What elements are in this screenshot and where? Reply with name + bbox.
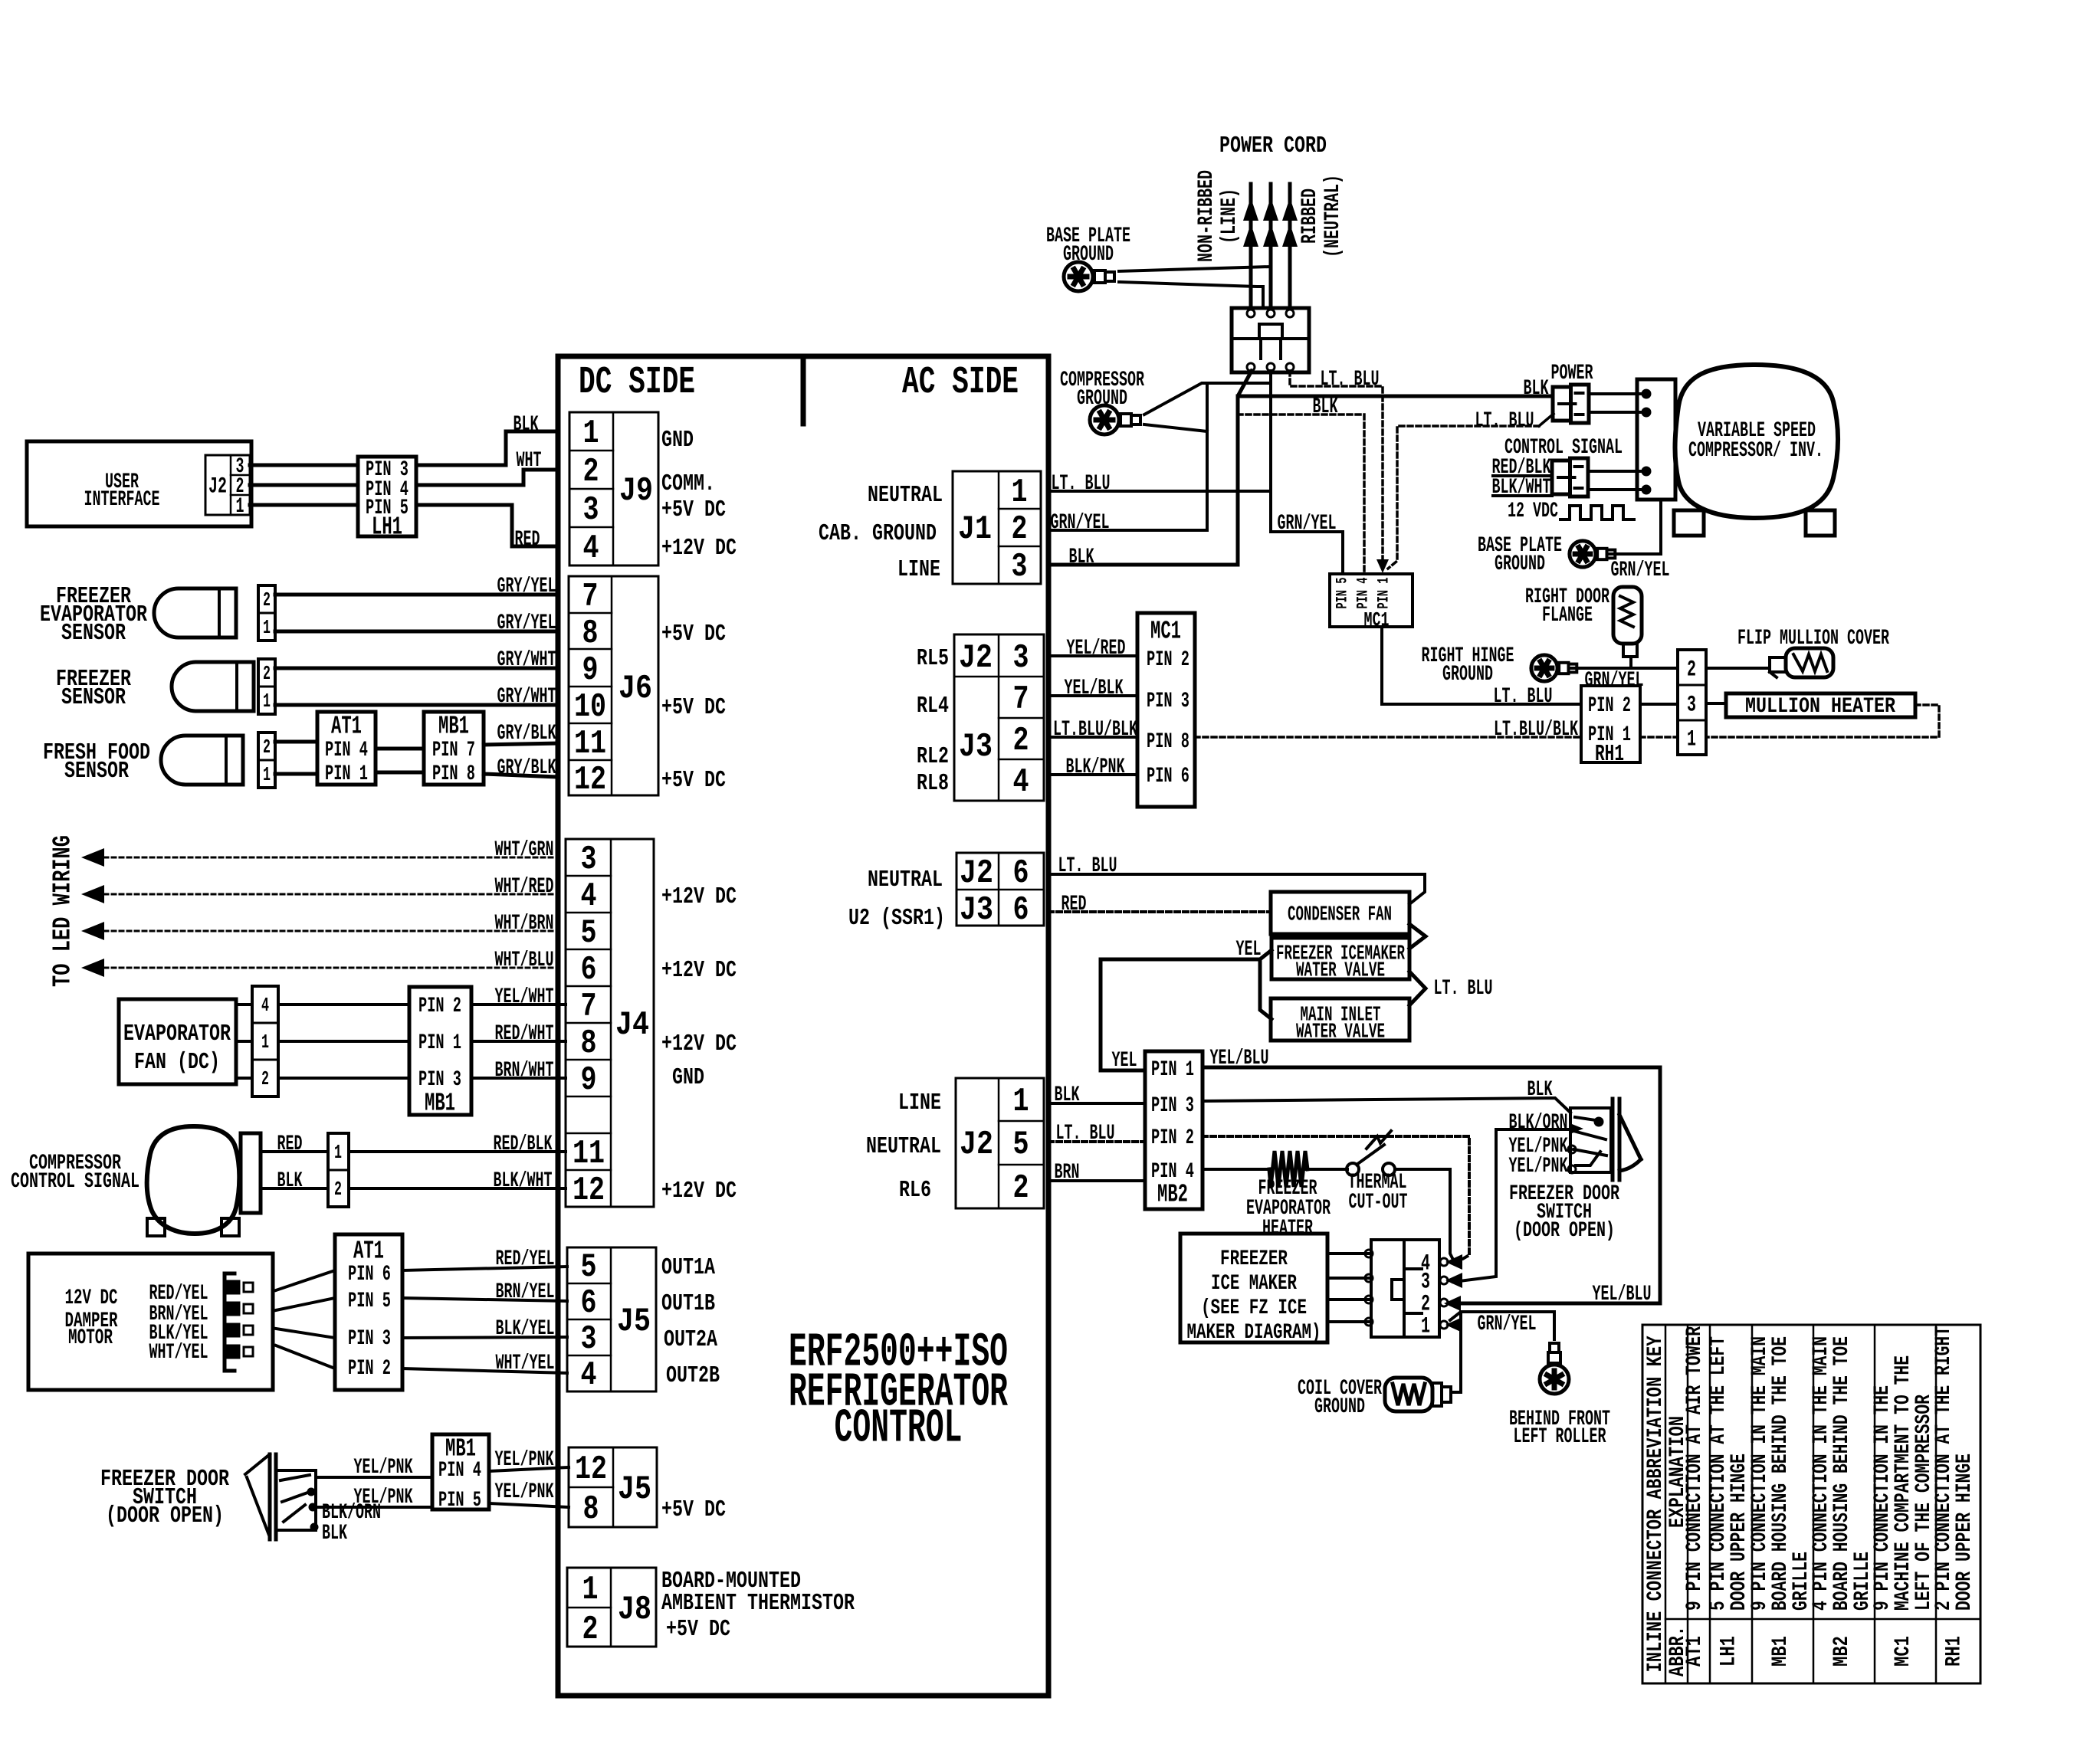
wire plug to MB1 PIN2 xyxy=(278,1003,409,1006)
right door flange icon xyxy=(1613,587,1642,644)
svg-text:+12V DC: +12V DC xyxy=(661,883,737,910)
wire WHT/BLU to LED (arrow) xyxy=(81,959,104,977)
svg-text:OUT2A: OUT2A xyxy=(664,1326,717,1353)
svg-text:3: 3 xyxy=(1687,693,1696,719)
control signal plug pair xyxy=(1552,461,1570,494)
wire BRN/WHT MB1 to J4-9 xyxy=(471,1077,566,1080)
compressor feet (right) xyxy=(1674,510,1704,536)
wires base plate ground to power cord xyxy=(1119,267,1271,271)
wire GRN/YEL plug 1 to roller ground xyxy=(1450,1312,1554,1339)
svg-text:DOOR UPPER HINGE: DOOR UPPER HINGE xyxy=(1953,1454,1977,1611)
wire cut-out to ice maker plug 4 xyxy=(1395,1169,1453,1260)
svg-text:PIN 4: PIN 4 xyxy=(325,739,368,762)
svg-text:GROUND: GROUND xyxy=(1442,663,1493,687)
wire RH1 PIN2 to strip 3 xyxy=(1640,703,1678,706)
power cord conductors with arrows xyxy=(1249,184,1253,308)
connector J6 xyxy=(569,576,658,795)
svg-text:2: 2 xyxy=(1013,1169,1029,1208)
svg-text:GRY/WHT: GRY/WHT xyxy=(497,685,556,709)
svg-text:YEL/PNK: YEL/PNK xyxy=(495,1448,554,1472)
svg-text:PIN 7: PIN 7 xyxy=(432,739,475,762)
svg-text:1: 1 xyxy=(1421,1314,1430,1340)
wires control plug to inverter xyxy=(1588,470,1646,473)
svg-text:MB2: MB2 xyxy=(1157,1180,1188,1208)
svg-text:5: 5 xyxy=(581,1248,597,1286)
svg-text:12 VDC: 12 VDC xyxy=(1508,500,1558,523)
svg-text:BRN/WHT: BRN/WHT xyxy=(495,1059,554,1083)
svg-text:WHT/BRN: WHT/BRN xyxy=(495,912,554,936)
svg-text:9 PIN CONNECTION AT AIR TOWER: 9 PIN CONNECTION AT AIR TOWER xyxy=(1683,1326,1707,1611)
svg-text:LT. BLU: LT. BLU xyxy=(1494,685,1553,709)
power plug pair xyxy=(1553,387,1571,421)
svg-text:(DOOR OPEN): (DOOR OPEN) xyxy=(1514,1219,1615,1243)
connector J2/J3 (RL5/RL4/RL2/RL8) xyxy=(954,634,1044,801)
wire neutral terminal to MC1 PIN1 xyxy=(1290,371,1383,565)
svg-text:SENSOR: SENSOR xyxy=(64,758,129,785)
svg-text:+12V DC: +12V DC xyxy=(661,1178,737,1205)
damper motor header connector xyxy=(223,1273,227,1371)
svg-text:MB1: MB1 xyxy=(438,712,469,740)
svg-text:6: 6 xyxy=(581,1284,597,1323)
svg-text:WHT/RED: WHT/RED xyxy=(495,875,554,899)
svg-text:OUT1A: OUT1A xyxy=(661,1254,715,1281)
svg-text:9: 9 xyxy=(581,1061,597,1100)
svg-text:5: 5 xyxy=(581,914,597,952)
wire J2-2 to LH1 PIN4 xyxy=(250,483,358,487)
condenser fan box xyxy=(1271,892,1409,934)
freezer sensor plug 2/1 xyxy=(258,659,275,714)
svg-text:NEUTRAL: NEUTRAL xyxy=(868,867,943,893)
svg-text:1: 1 xyxy=(263,763,271,786)
svg-text:2: 2 xyxy=(261,1067,269,1090)
svg-text:RH1: RH1 xyxy=(1942,1636,1966,1667)
svg-text:12: 12 xyxy=(575,1450,607,1489)
wire BRN J2-2 to MB2 PIN4 xyxy=(1048,1179,1145,1182)
svg-text:RED: RED xyxy=(277,1132,303,1156)
base plate ground lug (right) xyxy=(1570,541,1615,567)
wire WHT/BRN to LED (arrow) xyxy=(81,922,104,940)
wire GRY/BLK to J6-11 xyxy=(484,743,558,745)
svg-text:AT1: AT1 xyxy=(353,1237,384,1265)
wire LT. BLU J2-6 to condenser fan loop xyxy=(1048,874,1425,904)
svg-text:+5V DC: +5V DC xyxy=(661,497,726,523)
flip mullion cover icon xyxy=(1786,648,1833,677)
svg-text:2: 2 xyxy=(1012,510,1028,549)
svg-text:MB2: MB2 xyxy=(1830,1636,1854,1667)
svg-text:WHT/GRN: WHT/GRN xyxy=(495,838,554,862)
svg-text:PIN 8: PIN 8 xyxy=(1147,730,1189,754)
svg-text:(SEE FZ ICE: (SEE FZ ICE xyxy=(1201,1296,1307,1320)
svg-text:GRN/YEL: GRN/YEL xyxy=(1051,511,1110,535)
svg-text:+5V DC: +5V DC xyxy=(661,1496,726,1523)
svg-text:BLK/YEL: BLK/YEL xyxy=(496,1317,555,1341)
svg-text:BLK: BLK xyxy=(514,413,539,437)
svg-text:PIN 3: PIN 3 xyxy=(1147,690,1189,713)
wire YEL/RED J2-3 to MC1 PIN2 xyxy=(1048,654,1137,657)
svg-text:WATER VALVE: WATER VALVE xyxy=(1296,1021,1385,1044)
wire YEL/PNK switch to MB1 PIN5 xyxy=(316,1506,432,1509)
connector J9 xyxy=(569,412,658,565)
connector MC1 (pins 5/4/1) xyxy=(1330,574,1413,627)
compressor feet xyxy=(147,1218,165,1236)
svg-text:YEL/PNK: YEL/PNK xyxy=(354,1456,413,1480)
svg-text:GRN/YEL: GRN/YEL xyxy=(1611,559,1670,582)
wire BLK/WHT to J4-12 xyxy=(349,1187,566,1190)
svg-text:RED/YEL: RED/YEL xyxy=(496,1247,555,1271)
wire YEL/PNK MB1 to J5-12 xyxy=(489,1467,569,1471)
svg-text:3: 3 xyxy=(583,491,599,529)
svg-text:+5V DC: +5V DC xyxy=(661,694,726,721)
svg-text:J2: J2 xyxy=(208,474,227,500)
right hinge ground lug xyxy=(1531,655,1577,681)
svg-text:BLK: BLK xyxy=(1527,1078,1553,1102)
wire YEL/PNK switch to MB1 PIN4 xyxy=(316,1476,432,1479)
svg-text:GROUND: GROUND xyxy=(1314,1395,1365,1419)
svg-text:GRY/BLK: GRY/BLK xyxy=(497,722,556,746)
wire BLK line terminal to J1-3 and power switch xyxy=(1048,371,1252,565)
wire heater to thermal cut-out xyxy=(1306,1168,1347,1171)
svg-text:AMBIENT THERMISTOR: AMBIENT THERMISTOR xyxy=(661,1590,855,1617)
compressor signal plug 1/2 xyxy=(328,1133,349,1207)
svg-text:PIN 5: PIN 5 xyxy=(438,1489,481,1513)
svg-text:J5: J5 xyxy=(618,1470,651,1509)
svg-text:MC1: MC1 xyxy=(1892,1636,1915,1667)
svg-text:FLANGE: FLANGE xyxy=(1542,604,1593,628)
svg-text:J2: J2 xyxy=(959,639,993,677)
freezer evaporator sensor plug 2/1 xyxy=(258,585,275,641)
svg-text:+12V DC: +12V DC xyxy=(661,957,737,984)
wire WHT/GRN to LED (arrow) xyxy=(81,848,104,867)
svg-text:YEL/RED: YEL/RED xyxy=(1067,637,1126,660)
svg-text:GND: GND xyxy=(661,427,694,454)
wire LT. BLU J2-5 to MB2 PIN2 xyxy=(1048,1140,1145,1143)
svg-text:LH1: LH1 xyxy=(372,513,402,541)
svg-text:RL4: RL4 xyxy=(917,693,949,719)
svg-text:GRY/YEL: GRY/YEL xyxy=(497,575,556,598)
svg-text:WHT/YEL: WHT/YEL xyxy=(149,1341,208,1365)
svg-text:4: 4 xyxy=(261,994,269,1017)
svg-text:PIN 2: PIN 2 xyxy=(348,1357,391,1381)
wire AT1 PIN4 to MB1 PIN7 xyxy=(376,747,424,751)
svg-text:TO LED WIRING: TO LED WIRING xyxy=(48,835,77,987)
svg-text:BLK: BLK xyxy=(1055,1083,1080,1107)
main inlet water valve box xyxy=(1271,998,1409,1041)
svg-text:RIBBED: RIBBED xyxy=(1298,188,1322,244)
svg-text:PIN 6: PIN 6 xyxy=(348,1263,391,1286)
svg-text:CONTROL: CONTROL xyxy=(835,1401,963,1456)
svg-text:YEL/BLU: YEL/BLU xyxy=(1210,1047,1269,1070)
svg-text:POWER: POWER xyxy=(1551,362,1593,385)
wires fan to plug xyxy=(236,1003,252,1006)
svg-text:5: 5 xyxy=(1013,1126,1029,1164)
freezer door switch (right) icon xyxy=(1570,1108,1611,1172)
svg-text:+5V DC: +5V DC xyxy=(666,1616,730,1643)
svg-text:HEATER: HEATER xyxy=(1262,1217,1313,1241)
svg-text:3: 3 xyxy=(1013,639,1029,677)
svg-text:MB1: MB1 xyxy=(425,1089,455,1117)
svg-text:COMPRESSOR/ INV.: COMPRESSOR/ INV. xyxy=(1688,439,1823,463)
svg-text:RL2: RL2 xyxy=(917,743,949,770)
svg-text:2: 2 xyxy=(1687,657,1696,683)
compressor ground lug xyxy=(1090,405,1140,434)
svg-text:8: 8 xyxy=(581,1024,597,1063)
connector LH1 xyxy=(358,457,416,536)
svg-text:PIN 3: PIN 3 xyxy=(418,1068,461,1092)
svg-text:YEL/PNK: YEL/PNK xyxy=(1509,1155,1568,1178)
wire BLK/ORN switch to ice maker plug 3 xyxy=(1453,1129,1570,1282)
wire RH1 PIN1 to strip 1 xyxy=(1640,736,1678,739)
connector RH1 xyxy=(1581,686,1640,762)
connector J8 xyxy=(567,1568,656,1647)
svg-text:7: 7 xyxy=(582,578,599,616)
svg-text:DC SIDE: DC SIDE xyxy=(579,361,695,405)
svg-text:10: 10 xyxy=(574,688,606,726)
svg-text:PIN 3: PIN 3 xyxy=(1151,1094,1194,1118)
wire BLK to plug 2 xyxy=(261,1187,328,1190)
svg-text:+12V DC: +12V DC xyxy=(661,535,737,562)
svg-text:MAKER DIAGRAM): MAKER DIAGRAM) xyxy=(1187,1321,1321,1345)
wire BLK branch to MC1 PIN4 xyxy=(1238,415,1364,574)
svg-text:3: 3 xyxy=(581,1320,597,1359)
svg-text:3: 3 xyxy=(1012,548,1028,586)
svg-text:CUT-OUT: CUT-OUT xyxy=(1349,1191,1408,1214)
svg-text:RED/WHT: RED/WHT xyxy=(495,1022,554,1046)
svg-text:LEFT ROLLER: LEFT ROLLER xyxy=(1514,1425,1606,1449)
wire strip 3 to mullion heater xyxy=(1706,702,1726,705)
svg-text:11: 11 xyxy=(573,1135,605,1173)
variable speed compressor blob xyxy=(1675,365,1839,518)
connector J4 xyxy=(566,839,654,1207)
wire WHT/YEL AT1 to J5-4 xyxy=(402,1368,567,1373)
svg-text:8: 8 xyxy=(583,1490,599,1529)
svg-text:MULLION HEATER: MULLION HEATER xyxy=(1745,695,1895,719)
connector MB1 (fresh food sensor) xyxy=(424,712,484,785)
connector J5 (12/8) xyxy=(569,1447,657,1527)
svg-text:PIN 3: PIN 3 xyxy=(348,1327,391,1351)
svg-text:MC1: MC1 xyxy=(1150,617,1181,645)
wire YEL/WHT MB1 to J4-7 xyxy=(471,1003,566,1006)
svg-text:LT. BLU: LT. BLU xyxy=(1321,368,1380,392)
svg-text:CONDENSER FAN: CONDENSER FAN xyxy=(1288,904,1392,927)
svg-text:J4: J4 xyxy=(615,1006,649,1044)
wires power plug to inverter xyxy=(1589,392,1646,395)
svg-text:12: 12 xyxy=(574,761,606,799)
wire WHT/RED to LED (arrow) xyxy=(81,885,104,903)
svg-text:YEL: YEL xyxy=(1112,1049,1137,1073)
freezer evaporator sensor bulb xyxy=(154,588,236,638)
svg-text:1: 1 xyxy=(263,690,271,713)
freezer door switch icon (left) xyxy=(268,1454,272,1539)
svg-text:RED: RED xyxy=(1061,893,1087,916)
ice maker connector xyxy=(1371,1240,1404,1337)
wire LT.BLU MB2 PIN2 to ice maker plug 4 xyxy=(1203,1136,1469,1264)
fresh food sensor plug 2/1 xyxy=(258,733,275,788)
svg-text:LINE: LINE xyxy=(898,1090,941,1116)
svg-text:FAN (DC): FAN (DC) xyxy=(134,1049,220,1076)
svg-text:1: 1 xyxy=(1012,474,1028,512)
svg-text:1: 1 xyxy=(236,495,244,519)
svg-text:J6: J6 xyxy=(619,670,652,708)
svg-text:RED/BLK: RED/BLK xyxy=(494,1132,553,1156)
svg-text:YEL/BLU: YEL/BLU xyxy=(1593,1283,1652,1306)
svg-text:INTERFACE: INTERFACE xyxy=(84,488,160,512)
svg-text:GND: GND xyxy=(672,1064,704,1091)
svg-text:6: 6 xyxy=(1013,854,1029,893)
svg-text:AC SIDE: AC SIDE xyxy=(902,361,1019,405)
wire YEL to water valves xyxy=(1260,950,1271,1019)
svg-text:GRN/YEL: GRN/YEL xyxy=(1478,1313,1537,1336)
svg-text:J5: J5 xyxy=(617,1303,651,1341)
wire LT.BLU/BLK J3-2 to MC1 PIN8 xyxy=(1048,736,1137,739)
svg-text:PIN 6: PIN 6 xyxy=(1147,765,1189,788)
svg-text:J3: J3 xyxy=(960,891,993,929)
evaporator fan plug 4/1/2 xyxy=(252,986,278,1096)
wire LT.BLU/BLK MC1 PIN8 to RH1 PIN1 xyxy=(1195,736,1581,739)
inline connector abbreviation key table xyxy=(1642,1325,1980,1683)
svg-text:PIN 8: PIN 8 xyxy=(432,762,475,786)
svg-text:BRN: BRN xyxy=(1055,1161,1080,1185)
svg-text:RL8: RL8 xyxy=(917,770,949,797)
svg-text:1: 1 xyxy=(1013,1083,1029,1121)
connector J2 (LINE/NEUTRAL/RL6) xyxy=(956,1078,1044,1208)
svg-text:AT1: AT1 xyxy=(331,712,362,740)
wire RED/YEL AT1 to J5-5 xyxy=(402,1267,567,1270)
wire BLK/YEL AT1 to J5-3 xyxy=(402,1337,567,1338)
svg-text:7: 7 xyxy=(581,988,597,1026)
wire BRN/YEL AT1 to J5-6 xyxy=(402,1298,567,1301)
wire sensor to AT1 PIN4 xyxy=(275,740,317,744)
svg-text:PIN 1: PIN 1 xyxy=(1151,1058,1194,1082)
LT. BLU zigzag bus right of valves xyxy=(1409,924,1426,949)
svg-text:PIN 4: PIN 4 xyxy=(1354,578,1372,609)
svg-text:+12V DC: +12V DC xyxy=(661,1031,737,1057)
svg-text:YEL/WHT: YEL/WHT xyxy=(495,985,554,1009)
svg-text:PIN 5: PIN 5 xyxy=(348,1290,391,1313)
svg-text:12: 12 xyxy=(573,1172,605,1210)
svg-text:GRN/YEL: GRN/YEL xyxy=(1585,669,1644,693)
svg-text:6: 6 xyxy=(1013,891,1029,929)
svg-text:COMM.: COMM. xyxy=(661,470,715,497)
svg-text:GROUND: GROUND xyxy=(1495,552,1545,576)
wire GRY/YEL to J6-7 xyxy=(275,593,558,597)
connector J2 on user interface xyxy=(205,455,250,515)
svg-text:YEL: YEL xyxy=(1236,938,1262,962)
svg-text:PIN 1: PIN 1 xyxy=(418,1031,461,1055)
svg-text:J1: J1 xyxy=(958,510,992,549)
svg-text:(DOOR OPEN): (DOOR OPEN) xyxy=(106,1503,224,1529)
svg-text:RED: RED xyxy=(515,528,540,552)
freezer ice maker box xyxy=(1180,1234,1327,1342)
connector MB1 (evap fan) xyxy=(409,987,471,1115)
svg-text:(NEUTRAL): (NEUTRAL) xyxy=(1321,175,1345,257)
svg-text:3: 3 xyxy=(581,841,597,879)
connector AT1 (fresh food sensor) xyxy=(317,712,376,785)
svg-text:BLK: BLK xyxy=(1313,395,1338,419)
svg-text:SENSOR: SENSOR xyxy=(61,684,126,711)
svg-text:(LINE): (LINE) xyxy=(1218,188,1242,244)
wire WHT LH1 to J9-2 xyxy=(416,470,558,485)
svg-text:12V DC: 12V DC xyxy=(65,1286,118,1310)
evaporator fan (DC) box xyxy=(119,999,236,1084)
svg-text:1: 1 xyxy=(263,616,271,639)
inverter input block xyxy=(1637,379,1675,500)
svg-text:+5V DC: +5V DC xyxy=(661,767,726,794)
svg-text:2: 2 xyxy=(263,662,271,685)
wire GRN/YEL hinge ground to mullion strip 2 xyxy=(1571,667,1678,670)
connector J5 outputs xyxy=(567,1247,656,1391)
svg-text:GRY/YEL: GRY/YEL xyxy=(497,611,556,635)
svg-text:LH1: LH1 xyxy=(1717,1636,1741,1667)
svg-text:BLK: BLK xyxy=(277,1169,303,1193)
svg-text:2: 2 xyxy=(263,736,271,759)
svg-text:1: 1 xyxy=(582,1571,599,1609)
wire RED/BLK to J4-11 xyxy=(349,1150,566,1153)
control board U1 outline (ERF2500 refrigerator control) xyxy=(558,356,1048,1696)
svg-text:LT. BLU: LT. BLU xyxy=(1434,977,1493,1001)
svg-text:BRN/YEL: BRN/YEL xyxy=(496,1280,555,1304)
wire LT. BLU neutral to power switch xyxy=(1388,426,1539,569)
svg-text:1: 1 xyxy=(261,1031,269,1054)
svg-text:4: 4 xyxy=(583,529,599,568)
svg-text:LT. BLU: LT. BLU xyxy=(1058,854,1117,878)
wire YEL/BLU MB2 PIN1 loop to ice maker plug 2 xyxy=(1203,1067,1660,1303)
svg-text:YEL/PNK: YEL/PNK xyxy=(495,1480,554,1504)
wire plug to MB1 PIN1 xyxy=(278,1040,409,1043)
svg-text:NEUTRAL: NEUTRAL xyxy=(868,482,943,509)
compressor motor blob (control signal) xyxy=(147,1126,240,1234)
svg-text:GRY/BLK: GRY/BLK xyxy=(497,756,556,780)
wire GRY/YEL to J6-8 xyxy=(275,630,558,634)
svg-text:9: 9 xyxy=(582,651,599,690)
svg-text:CONTROL SIGNAL: CONTROL SIGNAL xyxy=(11,1170,139,1194)
svg-text:WATER VALVE: WATER VALVE xyxy=(1296,960,1385,983)
svg-text:PIN 2: PIN 2 xyxy=(1151,1126,1194,1150)
svg-text:J2: J2 xyxy=(960,854,993,893)
svg-text:MOTOR: MOTOR xyxy=(68,1326,113,1350)
wire RED LH1 to J9-4 xyxy=(416,505,558,546)
svg-text:4: 4 xyxy=(581,877,597,916)
wire BLK LH1 to J9-1 xyxy=(416,431,558,465)
svg-text:J3: J3 xyxy=(959,728,993,766)
svg-text:J8: J8 xyxy=(618,1591,651,1629)
wire BLK/PNK J3-4 to MC1 PIN6 xyxy=(1048,773,1137,776)
svg-text:11: 11 xyxy=(574,725,606,763)
wire RED to plug 1 xyxy=(261,1150,328,1153)
wire RED J3-6 to condenser fan xyxy=(1048,910,1271,913)
svg-text:NON-RIBBED: NON-RIBBED xyxy=(1195,170,1219,262)
fresh food sensor bulb xyxy=(161,736,243,785)
svg-text:MB1: MB1 xyxy=(1769,1636,1793,1667)
svg-text:RH1: RH1 xyxy=(1595,741,1624,768)
svg-text:GRN/YEL: GRN/YEL xyxy=(1278,512,1337,536)
svg-text:2: 2 xyxy=(583,453,599,491)
svg-text:MC1: MC1 xyxy=(1364,608,1390,631)
svg-text:1: 1 xyxy=(1687,727,1696,753)
svg-text:PIN 5: PIN 5 xyxy=(1334,578,1351,609)
svg-text:LT.BLU/BLK: LT.BLU/BLK xyxy=(1053,718,1137,742)
svg-text:BLK: BLK xyxy=(1524,377,1549,401)
freezer sensor bulb xyxy=(172,662,254,711)
svg-text:7: 7 xyxy=(1013,680,1029,719)
svg-text:PIN 2: PIN 2 xyxy=(1588,694,1631,718)
svg-text:PIN 4: PIN 4 xyxy=(438,1459,481,1483)
base plate ground lug (top) xyxy=(1064,262,1114,291)
svg-text:2: 2 xyxy=(1013,722,1029,760)
wires damper to AT1 (diagonals) xyxy=(276,1270,335,1290)
svg-text:8: 8 xyxy=(582,615,599,653)
svg-text:4: 4 xyxy=(581,1356,597,1395)
connector J1 xyxy=(953,471,1041,584)
